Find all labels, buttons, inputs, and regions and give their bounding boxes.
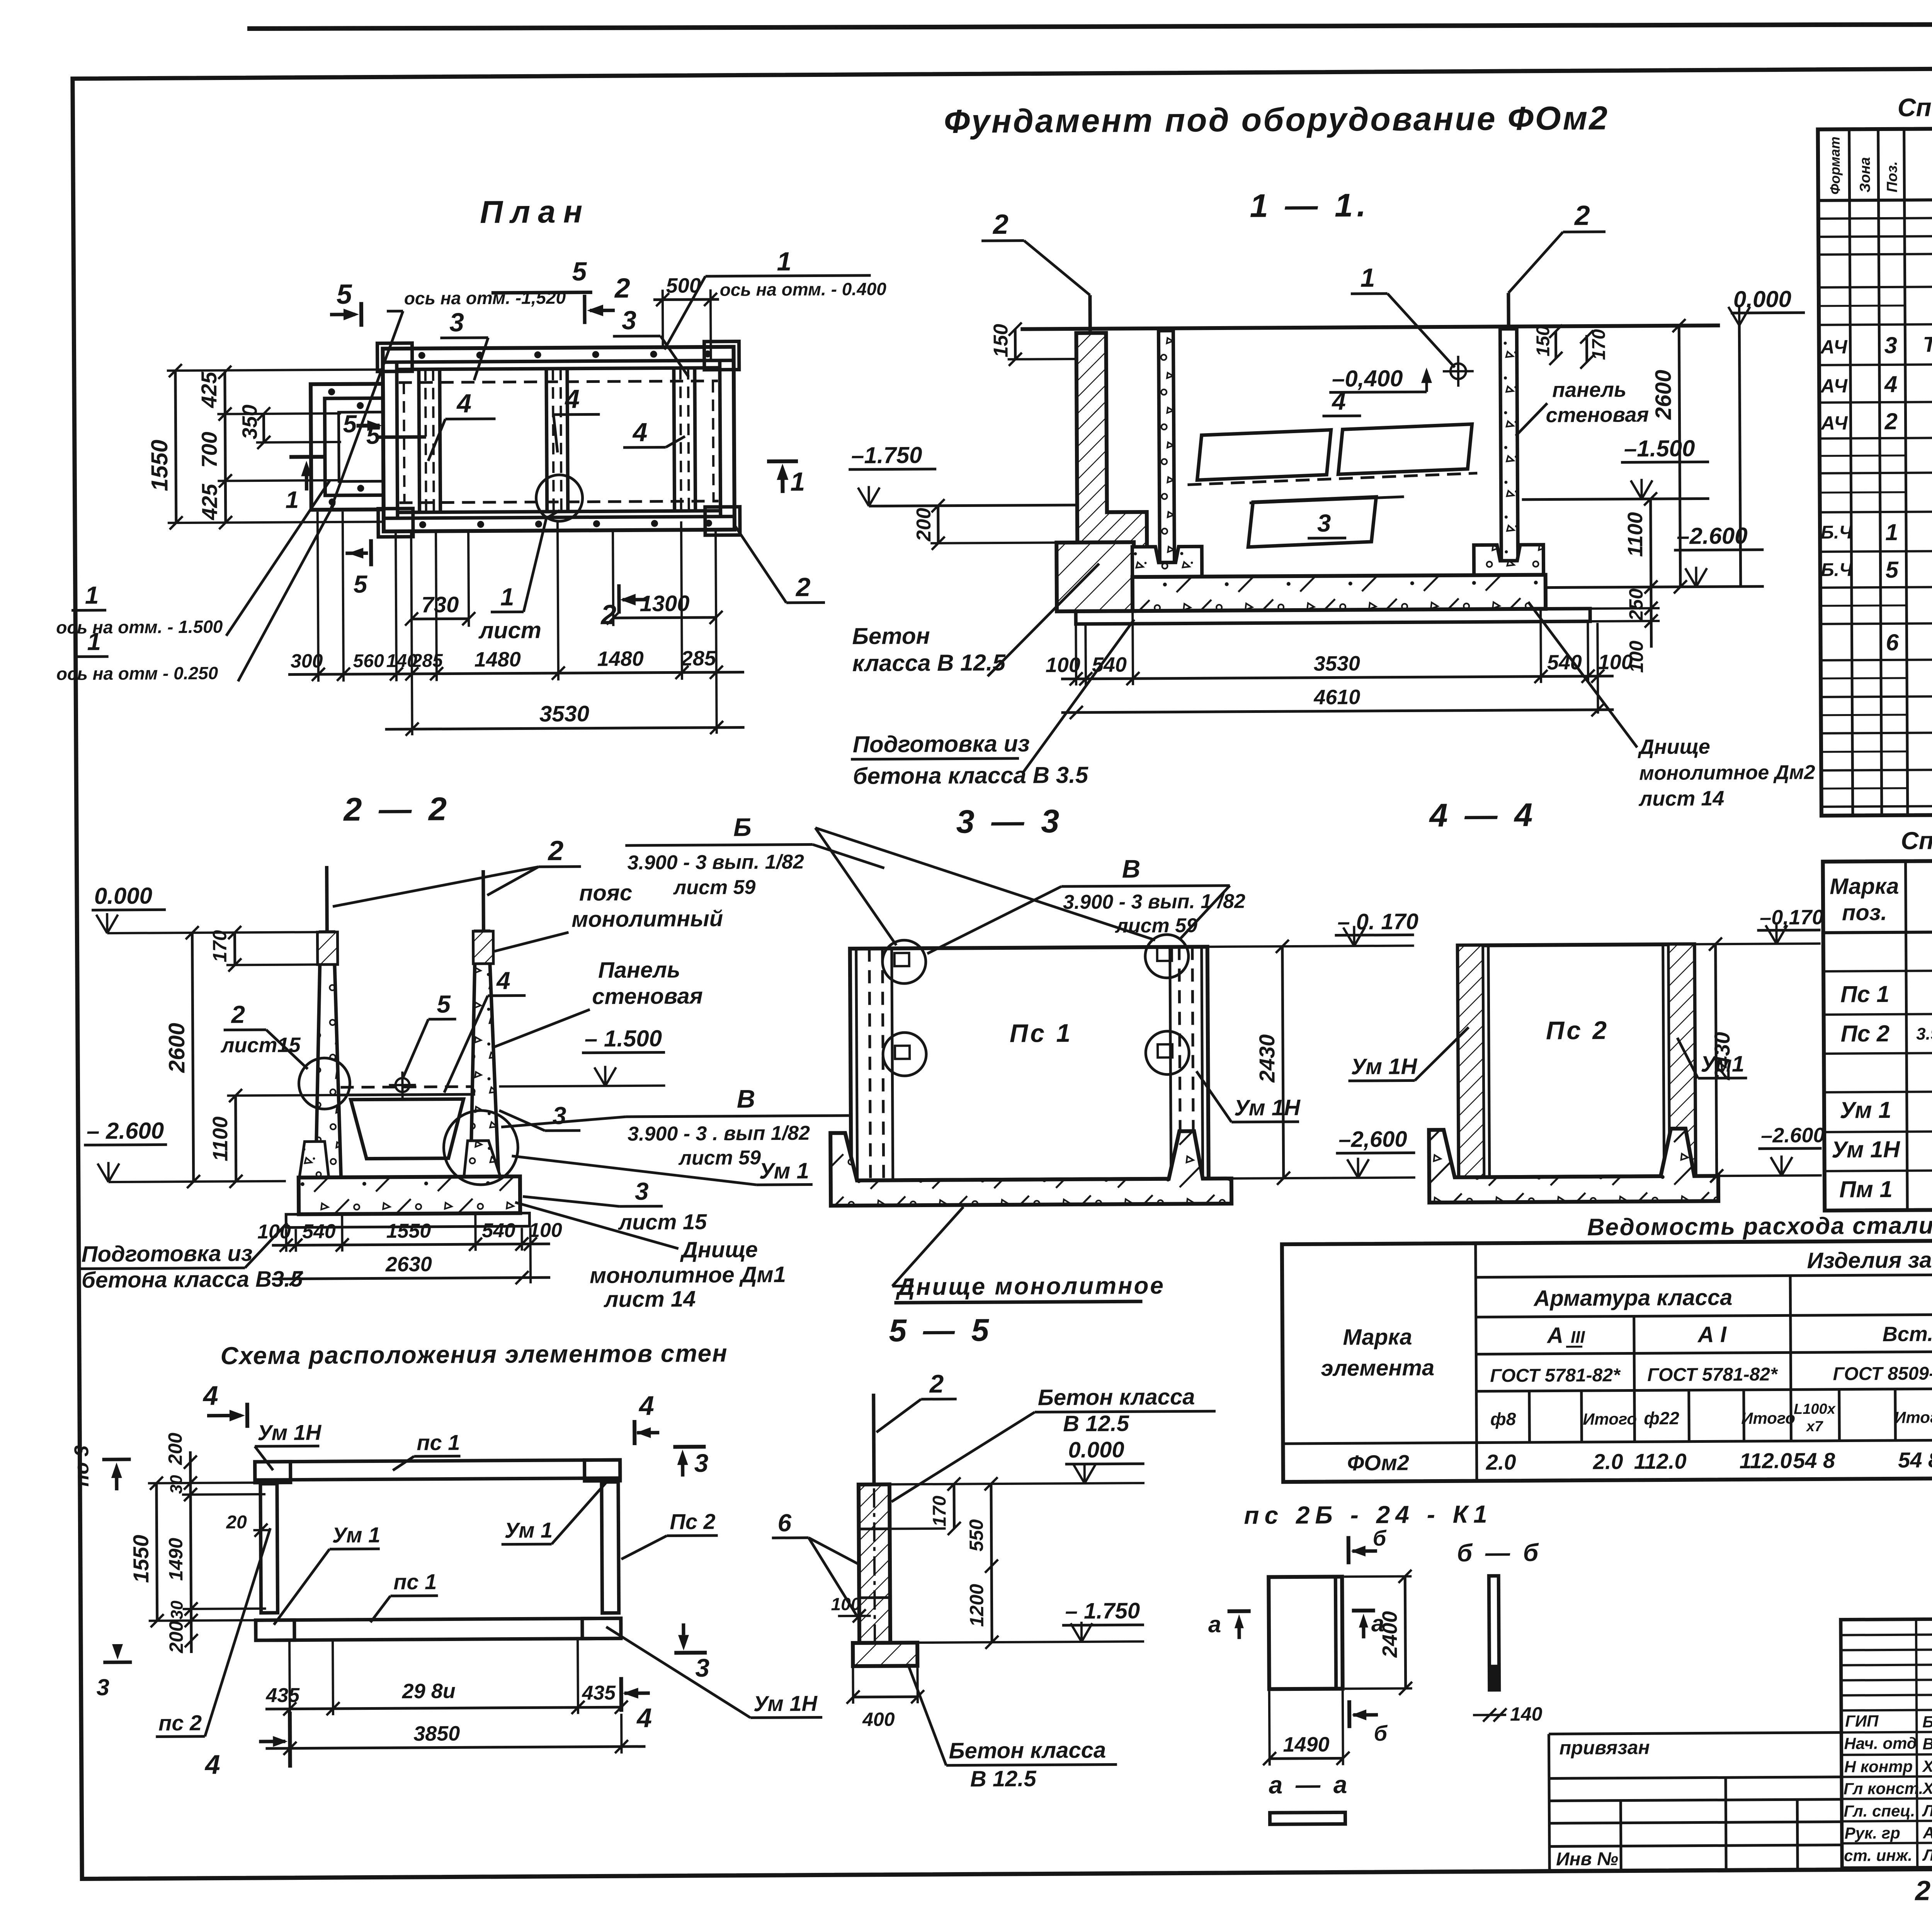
left inner excavation line: [1106, 333, 1107, 512]
svg-text:170: 170: [1588, 329, 1609, 360]
svg-text:Ум 1Н: Ум 1Н: [1832, 1136, 1901, 1163]
section marker 5 inside appendage: [343, 410, 426, 449]
svg-text:Арматура класса: Арматура класса: [1533, 1285, 1732, 1311]
panel rectangle: [850, 947, 1209, 1180]
svg-text:2: 2: [1574, 200, 1590, 231]
label В 3.900-3 вып. 1/82 лист 59: [927, 854, 1245, 954]
svg-text:лист: лист: [478, 617, 541, 643]
svg-text:3: 3: [635, 1177, 649, 1205]
svg-text:Вст.3 пс 6-1: Вст.3 пс 6-1: [1883, 1322, 1932, 1346]
svg-text:2.0: 2.0: [1593, 1449, 1623, 1474]
svg-text:Днище: Днище: [680, 1237, 758, 1262]
svg-text:Итого: Итого: [1741, 1409, 1795, 1427]
svg-text:435: 435: [265, 1684, 300, 1707]
svg-text:700: 700: [197, 432, 221, 468]
label 2 with two leaders: [332, 835, 581, 906]
dim 1100: [209, 1088, 339, 1188]
svg-text:1550: 1550: [386, 1220, 431, 1243]
svg-text:В: В: [1122, 854, 1140, 883]
svg-text:План: План: [480, 194, 590, 230]
svg-text:0.000: 0.000: [1068, 1437, 1124, 1463]
svg-text:Итого: Итого: [1583, 1410, 1637, 1428]
svg-text:Ум 1: Ум 1: [759, 1158, 809, 1184]
svg-text:2 — 2: 2 — 2: [343, 791, 451, 828]
svg-text:– 1.750: – 1.750: [1065, 1598, 1140, 1624]
equipment plates pos.4: [1187, 424, 1478, 485]
svg-text:5 — 5: 5 — 5: [889, 1313, 993, 1348]
svg-text:Ум 1: Ум 1: [332, 1522, 380, 1547]
svg-text:АЧ: АЧ: [1820, 375, 1848, 396]
label 6 with leaders to 5-5: [772, 1509, 858, 1618]
пояс монолитный caps: [317, 932, 337, 964]
svg-text:–2.600: –2.600: [1761, 1124, 1825, 1147]
label 2 top left: [981, 209, 1090, 332]
section marker 2 bottom: [600, 584, 648, 631]
left appendage outer: [311, 384, 384, 510]
label Пс2 right: [621, 1509, 718, 1559]
svg-text:2.0: 2.0: [1486, 1450, 1516, 1474]
svg-text:1200: 1200: [966, 1584, 988, 1627]
svg-text:ось на отм. - 0.400: ось на отм. - 0.400: [720, 279, 887, 300]
section marker 4 top-left: [202, 1380, 248, 1428]
dim 4610: [1061, 684, 1614, 719]
bottom wall strip пс1: [256, 1618, 621, 1640]
panel rectangle: [1458, 944, 1696, 1177]
svg-text:550: 550: [965, 1519, 987, 1552]
svg-text:Б: Б: [733, 813, 752, 841]
label 2: [876, 1369, 957, 1432]
plan marker 1 left small: [285, 457, 325, 514]
svg-text:54 8: 54 8: [1793, 1448, 1835, 1473]
left wall panel: [1158, 331, 1174, 563]
dim 140: [1473, 1703, 1543, 1725]
svg-text:140: 140: [1510, 1703, 1543, 1725]
dim chain 200/30/1490/30/200: [164, 1432, 266, 1653]
svg-text:Ум 1Н: Ум 1Н: [1351, 1054, 1417, 1079]
dim 400 below foot: [846, 1668, 924, 1730]
section marker 3 right bottom: [674, 1623, 710, 1682]
svg-text:29 8u: 29 8u: [402, 1679, 456, 1703]
top wall strip пс1: [255, 1460, 620, 1480]
svg-text:–1.750: –1.750: [851, 442, 922, 468]
hidden rebar dashed bottom: [400, 501, 719, 503]
label пояс монолитный: [494, 880, 723, 951]
right wall panel: [469, 931, 498, 1180]
svg-text:5: 5: [337, 279, 352, 310]
svg-text:435: 435: [582, 1682, 616, 1704]
svg-text:б: б: [1373, 1526, 1387, 1550]
contents: [1819, 255, 1932, 802]
svg-text:285: 285: [412, 651, 444, 671]
svg-text:3: 3: [553, 1102, 566, 1129]
verticals: [1849, 129, 1853, 815]
dim 730 / 1300: [405, 591, 723, 626]
wall hatched: [859, 1485, 890, 1643]
right wall panel: [1500, 329, 1518, 561]
dim 170 550 1200: [891, 1477, 998, 1649]
detail circle right footing: [444, 1111, 518, 1185]
dim 2400: [1344, 1570, 1412, 1695]
anchor dots top band: [418, 350, 712, 528]
label пс1 top: [393, 1430, 461, 1470]
svg-text:ось на отм - 0.250: ось на отм - 0.250: [56, 663, 218, 684]
wall band 2: [546, 369, 568, 512]
base course: [286, 1213, 529, 1227]
wall horizontal joints: [859, 1527, 890, 1530]
label 4: [1322, 387, 1361, 416]
dim 2430: [1254, 940, 1290, 1185]
svg-text:Подготовка из: Подготовка из: [853, 731, 1030, 757]
svg-text:4: 4: [636, 1703, 652, 1733]
svg-text:Хрупало: Хрупало: [1922, 1757, 1932, 1776]
svg-text:Гл. спец.: Гл. спец.: [1844, 1802, 1915, 1820]
svg-text:Ум 1: Ум 1: [1840, 1097, 1891, 1123]
level -2.600: [1231, 1126, 1415, 1178]
svg-text:3530: 3530: [1314, 652, 1360, 675]
level -1.750 left: [849, 441, 1078, 506]
svg-text:150: 150: [990, 324, 1012, 357]
svg-text:монолитное Дм1: монолитное Дм1: [590, 1262, 786, 1288]
dim 2430: [1709, 937, 1735, 1182]
svg-text:5: 5: [1885, 557, 1899, 583]
dims right side 150 170 2600 1100 250 100: [1533, 319, 1687, 673]
svg-text:30: 30: [167, 1475, 186, 1494]
right hatched band Ум1: [1668, 944, 1696, 1176]
svg-text:Винклер: Винклер: [1922, 1735, 1932, 1753]
svg-text:1550: 1550: [129, 1535, 153, 1583]
svg-text:Пс 2: Пс 2: [1840, 1020, 1889, 1047]
svg-text:400: 400: [862, 1708, 895, 1730]
svg-text:3: 3: [96, 1674, 109, 1700]
level 0.000: [889, 1437, 1145, 1484]
section marker 3 right top: [673, 1447, 708, 1477]
svg-text:ГОСТ 8509-86: ГОСТ 8509-86: [1833, 1363, 1932, 1384]
left monolithic band: [856, 949, 857, 1180]
marker a right: [1352, 1611, 1384, 1638]
signature table: [1841, 1618, 1932, 1868]
big left concrete block: [1056, 542, 1134, 611]
svg-text:4: 4: [496, 967, 510, 995]
level 0.000: [92, 882, 321, 933]
svg-text:лист 14: лист 14: [603, 1286, 696, 1312]
svg-text:x7: x7: [1806, 1418, 1823, 1435]
svg-text:ось на отм. -1,520: ось на отм. -1,520: [404, 287, 566, 308]
svg-text:лист 14: лист 14: [1638, 787, 1725, 810]
big cells: [1282, 1238, 1932, 1482]
label Ум1Н top-left: [255, 1420, 322, 1470]
label 2 top right: [1508, 200, 1606, 329]
svg-text:Поз.: Поз.: [1884, 161, 1900, 192]
svg-text:540: 540: [302, 1220, 336, 1243]
svg-text:Левицкий: Левицкий: [1922, 1845, 1932, 1864]
svg-text:22530-01 21: 22530-01 21: [1914, 1874, 1932, 1906]
hidden rebar dashed top: [399, 381, 718, 383]
svg-text:Ведомость расхода стали на: Ведомость расхода стали на элемент, кг: [1587, 1211, 1932, 1241]
label 4 (wall 1): [428, 389, 496, 461]
level -0.170: [1694, 906, 1824, 944]
svg-text:Днище: Днище: [1638, 735, 1710, 759]
section marker 5 bottom: [345, 539, 371, 598]
left excavation wall hatched: [1076, 333, 1147, 611]
svg-text:5: 5: [437, 990, 451, 1018]
left wall пс2: [260, 1484, 278, 1613]
svg-text:лист 59: лист 59: [678, 1146, 761, 1169]
svg-text:монолитное Дм2: монолитное Дм2: [1639, 761, 1815, 784]
level 0.000 right: [1728, 286, 1806, 587]
svg-text:ТП902-2-435.87 КЖ И.130: ТП902-2-435.87 КЖ И.130: [1923, 331, 1932, 357]
left annex table (привязан): [1549, 1733, 1842, 1870]
svg-text:L100x: L100x: [1794, 1401, 1836, 1418]
section marker 2 top: [585, 273, 631, 324]
svg-text:1480: 1480: [474, 648, 521, 671]
svg-text:Изделия закладные: Изделия закладные: [1807, 1247, 1932, 1273]
panel edge line: [1335, 1577, 1336, 1689]
svg-text:бетона класса В 3.5: бетона класса В 3.5: [853, 762, 1089, 789]
svg-text:2: 2: [795, 573, 811, 602]
svg-text:4: 4: [1331, 387, 1346, 415]
svg-text:1490: 1490: [1283, 1733, 1329, 1757]
base course подготовка: [1076, 609, 1590, 624]
svg-text:540: 540: [1092, 653, 1127, 676]
svg-text:Лисичкин: Лисичкин: [1922, 1801, 1932, 1820]
svg-text:А I: А I: [1697, 1322, 1727, 1347]
svg-text:Гл конст.: Гл конст.: [1844, 1779, 1923, 1798]
svg-text:Рук. гр: Рук. гр: [1845, 1824, 1900, 1842]
svg-text:Белоус: Белоус: [1922, 1713, 1932, 1731]
svg-text:стеновая: стеновая: [1546, 403, 1649, 427]
svg-text:3: 3: [622, 306, 636, 335]
svg-text:425: 425: [197, 371, 221, 408]
svg-text:3: 3: [1317, 509, 1331, 537]
label пс1 bottom: [370, 1570, 438, 1622]
svg-text:ГИП: ГИП: [1845, 1712, 1879, 1730]
svg-text:Фундамент под оборудование: Фундамент под оборудование ФОм2: [944, 100, 1609, 140]
svg-text:Пс 2: Пс 2: [670, 1509, 715, 1534]
bottom-left corner block: [256, 1620, 294, 1641]
svg-text:бетона класса В3.5: бетона класса В3.5: [82, 1266, 303, 1293]
dim 20 small: [226, 1512, 270, 1537]
wall band 1: [419, 369, 440, 512]
svg-text:200: 200: [913, 508, 935, 542]
svg-text:6: 6: [1886, 629, 1899, 655]
label 1 лист bottom: [478, 510, 561, 643]
label 2 лист15 left: [220, 1000, 308, 1069]
label Ум1Н: [1196, 1071, 1301, 1122]
svg-text:1300: 1300: [639, 591, 689, 616]
top-left corner block: [255, 1462, 291, 1483]
right wall пс2: [602, 1482, 619, 1613]
right monolithic band: [1170, 947, 1171, 1179]
dim 2600: [163, 926, 200, 1188]
svg-text:–2.600: –2.600: [1677, 523, 1748, 549]
dim chain vertical 1550: [146, 363, 384, 529]
svg-text:2600: 2600: [164, 1023, 190, 1073]
dim 3850: [265, 1714, 646, 1755]
svg-text:20: 20: [226, 1512, 247, 1532]
svg-text:2630: 2630: [385, 1253, 432, 1276]
label пс2 bottom-left: [155, 1528, 272, 1737]
svg-text:5: 5: [343, 410, 357, 438]
svg-text:Алехова: Алехова: [1923, 1823, 1932, 1842]
svg-text:поз.: поз.: [1842, 900, 1887, 925]
dim 1550 left: [128, 1476, 259, 1628]
equipment plates pos.3: [1248, 497, 1405, 547]
svg-text:3: 3: [449, 308, 464, 337]
section marker 5 top-left: [330, 279, 362, 327]
label Днище монолитное Дм2 лист 14: [1528, 600, 1815, 811]
label Панель стеновая: [492, 957, 703, 1048]
section marker 4 bottom-left: [204, 1712, 290, 1780]
svg-text:монолитный: монолитный: [571, 906, 723, 932]
label 4 (wall 2): [553, 384, 600, 452]
svg-text:а: а: [1208, 1611, 1221, 1637]
left panel footing cup: [1132, 546, 1202, 577]
svg-text:5: 5: [354, 570, 368, 598]
trough bin: [351, 1099, 464, 1159]
label Ум1 left: [273, 1522, 381, 1624]
dim chain 300 560 140 285 1480 1480 285: [288, 646, 744, 681]
svg-text:Бетон: Бетон: [852, 623, 930, 649]
svg-text:В: В: [737, 1084, 755, 1113]
svg-text:3.900 - 3 вып. 1 /82: 3.900 - 3 вып. 1 /82: [1063, 890, 1245, 913]
foundation outer rectangle: [383, 347, 735, 532]
detail circle left wall: [299, 1058, 350, 1109]
svg-text:ф8: ф8: [1490, 1409, 1516, 1429]
svg-text:3.900-3; вып 1/82; 3/82; лист: 3.900-3; вып 1/82; 3/82; лист 13: [1916, 1023, 1932, 1044]
label Ум1: [512, 1155, 812, 1186]
label Бетон класса В 12.5 (top): [891, 1384, 1216, 1502]
scan paper top edge line: [247, 23, 1932, 29]
svg-text:730: 730: [421, 592, 459, 617]
svg-text:4: 4: [564, 384, 580, 414]
svg-text:Пс 1: Пс 1: [1010, 1019, 1073, 1048]
bottom tray slab: [1429, 1128, 1718, 1202]
svg-text:–1.500: –1.500: [1624, 435, 1695, 462]
svg-text:пс 1: пс 1: [393, 1570, 437, 1594]
svg-text:2: 2: [614, 273, 630, 304]
marker по 3 left side: [70, 1445, 131, 1491]
svg-text:Зона: Зона: [1857, 157, 1873, 192]
label 5 with target: [388, 990, 456, 1099]
dim 350: [238, 404, 341, 449]
label 1 ось на отм.-1.500 bottom left: [55, 481, 330, 638]
dim 3530: [385, 700, 744, 736]
sub row lines in narrow cols: [1819, 306, 1908, 789]
svg-text:Подготовка из: Подготовка из: [82, 1241, 253, 1267]
level -1.500: [499, 1026, 665, 1087]
svg-text:1: 1: [777, 247, 791, 276]
svg-text:– 1.500: – 1.500: [585, 1026, 662, 1052]
svg-text:1100: 1100: [209, 1116, 232, 1161]
svg-text:425: 425: [197, 483, 221, 520]
svg-text:1: 1: [1885, 519, 1898, 545]
svg-text:3.900 - 3 . вып 1/82: 3.900 - 3 . вып 1/82: [628, 1122, 810, 1145]
leader and label: ось на отм.-1,520: [328, 257, 593, 512]
svg-text:Марка: Марка: [1830, 874, 1899, 899]
svg-text:2430: 2430: [1255, 1034, 1279, 1083]
svg-text:2600: 2600: [1651, 370, 1676, 420]
svg-text:2: 2: [929, 1369, 944, 1398]
svg-text:54 8: 54 8: [1898, 1447, 1932, 1472]
left footing cup: [299, 1141, 328, 1177]
corner tab bottom-right: [705, 507, 740, 535]
dim 170: [209, 925, 317, 971]
svg-text:2: 2: [1884, 408, 1898, 434]
svg-text:– 0. 170: – 0. 170: [1337, 909, 1418, 934]
svg-text:Марка: Марка: [1343, 1324, 1412, 1350]
svg-text:3.900 - 3 вып. 1/82: 3.900 - 3 вып. 1/82: [627, 851, 804, 874]
svg-text:по 3: по 3: [70, 1445, 93, 1486]
svg-text:3850: 3850: [413, 1722, 460, 1745]
label 3 лист 15 bottom: [523, 1177, 707, 1235]
svg-text:5: 5: [366, 421, 381, 449]
svg-text:1550: 1550: [146, 440, 173, 492]
svg-text:В 12.5: В 12.5: [970, 1766, 1037, 1792]
label 3 right: [499, 1102, 580, 1131]
marker 3 bottom left: [96, 1644, 132, 1700]
svg-text:2: 2: [547, 835, 563, 866]
left appendage inner box: [338, 412, 383, 481]
inner wall line top: [383, 361, 734, 362]
svg-text:Б.Ч: Б.Ч: [1821, 522, 1853, 543]
bottom slab: [299, 1177, 520, 1214]
label 1 with target symbol: [1350, 263, 1474, 388]
label 3 with leader (top left wall): [440, 308, 488, 381]
label В 3.900-3 вып 1/82 лист 59: [501, 1084, 849, 1170]
svg-text:4: 4: [632, 418, 647, 447]
section marker 4 bottom-right: [621, 1677, 652, 1733]
svg-text:170: 170: [929, 1495, 950, 1527]
dim 150 left: [990, 322, 1077, 366]
svg-text:–0,170: –0,170: [1760, 906, 1823, 929]
appendage anchor dots: [328, 388, 364, 505]
svg-text:Хрупало: Хрупало: [1922, 1779, 1932, 1798]
svg-text:1100: 1100: [1624, 512, 1647, 557]
svg-text:Бетон класса: Бетон класса: [1038, 1384, 1195, 1410]
svg-text:540: 540: [482, 1219, 515, 1242]
marker a left: [1208, 1611, 1251, 1639]
svg-text:2: 2: [231, 1000, 245, 1028]
svg-text:ГОСТ 5781-82*: ГОСТ 5781-82*: [1490, 1365, 1621, 1386]
svg-text:1: 1: [285, 486, 299, 513]
svg-text:200: 200: [164, 1432, 186, 1465]
svg-text:Бетон класса: Бетон класса: [949, 1738, 1106, 1764]
leaders from Б label (top left): [815, 827, 896, 946]
row lines: [1818, 214, 1932, 806]
svg-text:Днище монолитное: Днище монолитное: [895, 1272, 1165, 1301]
svg-text:3 — 3: 3 — 3: [956, 803, 1063, 840]
svg-text:3: 3: [1884, 332, 1897, 358]
svg-text:1: 1: [85, 581, 99, 609]
svg-text:ф22: ф22: [1644, 1408, 1680, 1428]
level -2.600: [1718, 1124, 1825, 1176]
svg-text:350: 350: [238, 405, 261, 439]
svg-text:4: 4: [204, 1750, 220, 1780]
rebar above wall: [874, 1394, 874, 1485]
svg-text:Пс 2: Пс 2: [1546, 1016, 1609, 1045]
extension lines bottom: [318, 510, 717, 736]
svg-text:Панель: Панель: [598, 957, 680, 983]
svg-text:250: 250: [1625, 588, 1647, 621]
svg-text:540: 540: [1547, 651, 1582, 674]
label 1 ось на отм -0.250 bottom left: [56, 503, 335, 684]
label Днище монолитное: [892, 1206, 1165, 1303]
svg-text:1: 1: [87, 628, 101, 655]
svg-text:лист 59: лист 59: [673, 876, 756, 899]
corner tab top-left: [377, 343, 412, 371]
svg-text:б: б: [1374, 1721, 1388, 1745]
svg-text:100: 100: [831, 1594, 861, 1614]
